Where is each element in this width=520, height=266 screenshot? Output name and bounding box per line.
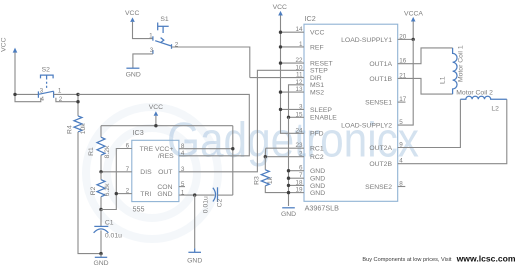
svg-text:22: 22: [295, 57, 303, 64]
svg-text:7: 7: [299, 172, 303, 179]
ground (under IC2 bus): [281, 208, 296, 218]
svg-text:S2: S2: [42, 67, 51, 74]
svg-text:R1: R1: [88, 147, 95, 156]
svg-text:/RES: /RES: [158, 153, 174, 160]
svg-text:SENSE1: SENSE1: [365, 100, 392, 107]
wire IC2 pin17 SENSE1 stub: [398, 101, 406, 103]
wire IC2 pin1: [281, 46, 305, 48]
wire VCCA to pin5 LOAD-SUPPLY2: [398, 39, 414, 125]
wire S2 node to 555 /RES (long): [78, 94, 249, 155]
wire IC2 pin19 GND: [289, 192, 305, 194]
svg-text:10: 10: [295, 64, 303, 71]
wire IC2 pin4 OUT2B to coil2: [398, 99, 507, 163]
svg-text:19: 19: [295, 187, 303, 194]
IC IC2 A3967SLB pin names and numbers: [295, 14, 406, 213]
svg-text:PFD: PFD: [310, 131, 324, 138]
resistor R1: [88, 126, 111, 172]
svg-text:13: 13: [295, 86, 303, 93]
svg-text:VCC: VCC: [125, 10, 139, 17]
node junction TRI: [115, 192, 118, 195]
wire IC2 pin8 SENSE2 stub: [398, 186, 406, 188]
node junction pin7/GND bus: [287, 177, 290, 180]
wire DIS to R1/R2 junction: [101, 171, 132, 173]
wire TRI pin to tie: [116, 193, 132, 195]
svg-text:RC2: RC2: [310, 154, 324, 161]
svg-text:1: 1: [299, 41, 303, 48]
svg-text:A3967SLB: A3967SLB: [305, 204, 340, 213]
svg-text:15: 15: [295, 111, 303, 118]
svg-text:1k: 1k: [267, 176, 274, 184]
svg-text:TRE: TRE: [140, 146, 154, 153]
wire IC2 pin16 OUT1A to coil: [398, 48, 453, 64]
switch S2: [38, 67, 62, 103]
IC IC3 555 box outline: [132, 140, 179, 201]
wire RC1/RC2 tie: [264, 148, 266, 157]
svg-text:0.01u: 0.01u: [203, 196, 210, 213]
ground (under 555): [187, 195, 202, 265]
node junction VCC/S2: [13, 93, 16, 96]
wire 555 pin3 OUT to IC2 STEP: [179, 70, 304, 172]
svg-text:3: 3: [40, 88, 44, 95]
wire IC2 pin22: [281, 62, 305, 64]
svg-text:GND: GND: [187, 258, 202, 265]
svg-text:GND: GND: [310, 183, 325, 190]
wire 555 pin5 CON stub: [179, 186, 185, 188]
wire VCC rail: [101, 125, 233, 127]
svg-text:1: 1: [58, 88, 62, 95]
wire IC2 pin14: [281, 31, 305, 33]
svg-text:0.01u: 0.01u: [105, 232, 122, 239]
node junction pin15/GND branch: [287, 116, 290, 119]
svg-text:23: 23: [295, 142, 303, 149]
svg-text:VCC+: VCC+: [155, 146, 173, 153]
svg-text:6.2k: 6.2k: [104, 183, 111, 196]
svg-text:GND: GND: [310, 168, 325, 175]
svg-text:18: 18: [295, 179, 303, 186]
svg-text:MS2: MS2: [310, 90, 324, 97]
node junction VCC rail: [154, 124, 157, 127]
svg-text:CON: CON: [157, 184, 172, 191]
svg-text:SLEEP: SLEEP: [310, 107, 332, 114]
svg-text:IC2: IC2: [305, 14, 316, 23]
svg-text:DIR: DIR: [310, 75, 322, 82]
node junction RC2/R3: [264, 155, 267, 158]
wire S2 pin4 to VCC line: [15, 94, 41, 101]
node junction GND/C2: [193, 193, 196, 196]
svg-text:3: 3: [299, 103, 303, 110]
node VCC (S1 power flag): [125, 10, 153, 38]
node junction pin1/VCC bus: [279, 45, 282, 48]
wire S2 pins tie vertical: [77, 94, 79, 116]
svg-text:4: 4: [181, 150, 185, 157]
resistor R2: [90, 172, 111, 210]
svg-text:2: 2: [299, 151, 303, 158]
svg-text:OUT1A: OUT1A: [369, 61, 392, 68]
node VCC (power flag above IC2): [273, 4, 287, 16]
wire S1 pin3 to GND: [133, 54, 153, 68]
svg-text:MS1: MS1: [310, 82, 324, 89]
IC IC3 555 pin names and numbers: [126, 128, 185, 213]
svg-text:TRI: TRI: [140, 191, 151, 198]
wire S2 pin1 to node: [54, 93, 78, 95]
svg-text:VCC: VCC: [273, 4, 287, 11]
svg-text:GND: GND: [310, 190, 325, 197]
node junction pin19/GND bus: [287, 191, 290, 194]
wire IC2 pin11 DIR: [250, 77, 304, 79]
svg-text:R4: R4: [66, 125, 73, 134]
wire GND bus right of 555: [288, 117, 290, 206]
node junction pin8/VCC: [231, 147, 234, 150]
IC IC2 A3967SLB box outline: [304, 24, 398, 201]
svg-text:STEP: STEP: [310, 68, 328, 75]
svg-text:OUT2A: OUT2A: [369, 145, 392, 152]
svg-text:2: 2: [126, 188, 130, 195]
wire IC2 pin6 GND: [289, 170, 305, 172]
svg-text:VCC: VCC: [1, 37, 8, 51]
IC U2 A3967SLB box fill: [304, 24, 398, 201]
svg-text:GND: GND: [93, 260, 108, 266]
wire IC2 pin3 SLEEP: [281, 108, 305, 110]
wire IC2 pin7 GND: [289, 177, 305, 179]
wire IC2 pin12 MS1 jog: [289, 85, 305, 118]
svg-text:GND: GND: [281, 211, 296, 218]
svg-text:REF: REF: [310, 44, 324, 51]
node junction pin22/VCC bus: [279, 61, 282, 64]
svg-text:Buy Components at low prices,: Buy Components at low prices, Visit: [362, 257, 452, 263]
svg-text:R3: R3: [254, 176, 261, 185]
svg-text:RC1: RC1: [310, 146, 324, 153]
svg-text:11: 11: [296, 72, 303, 79]
svg-text:10k: 10k: [80, 123, 87, 135]
svg-text:4: 4: [40, 96, 44, 103]
node VCCA power flag: [404, 10, 423, 39]
wire IC2 pin13 MS2: [281, 91, 305, 93]
wire VCC corner to S2 pin3: [15, 93, 38, 95]
wire VCC down to C2: [232, 126, 234, 195]
node junction pin13/VCC bus: [279, 90, 282, 93]
switch S1: [149, 16, 179, 54]
ground (under S1): [126, 68, 141, 78]
wire S1 pin2 to IC2 DIR: [172, 47, 250, 78]
inductor L1 Motor Coil 1: [440, 45, 465, 94]
svg-text:C1: C1: [105, 219, 114, 226]
svg-text:RESET: RESET: [310, 61, 333, 68]
svg-text:C2: C2: [217, 198, 224, 207]
svg-text:OUT1B: OUT1B: [369, 76, 392, 83]
svg-text:ENABLE: ENABLE: [310, 115, 337, 122]
svg-text:IC3: IC3: [133, 128, 144, 137]
wire IC2 pin20 LOAD-SUPPLY1: [398, 38, 414, 40]
svg-text:L2: L2: [491, 106, 499, 113]
wire R4 bottom to GND rail: [78, 132, 101, 254]
svg-text:OUT: OUT: [158, 169, 172, 176]
inductor L2 Motor Coil 2: [456, 89, 507, 112]
wire IC2 pin9 OUT2A to coil2: [398, 99, 461, 147]
node VCC (center power flag above IC3): [149, 104, 163, 126]
svg-text:DIS: DIS: [140, 169, 152, 176]
svg-text:www.lcsc.com: www.lcsc.com: [456, 253, 516, 263]
svg-text:GND: GND: [126, 71, 141, 78]
wire IC2 pin23 RC1: [266, 147, 304, 149]
node junction pin6/GND bus: [287, 169, 290, 172]
node junction R1/R2/DIS: [99, 170, 102, 173]
svg-text:7: 7: [126, 166, 130, 173]
ground (bottom left): [93, 254, 108, 266]
svg-text:1: 1: [149, 32, 153, 39]
svg-text:Motor Coil 1: Motor Coil 1: [458, 45, 465, 82]
resistor R4: [66, 116, 87, 134]
svg-text:SENSE2: SENSE2: [365, 184, 392, 191]
node junction pin18/GND bus: [287, 184, 290, 187]
svg-text:6: 6: [126, 143, 130, 150]
node VCC (left power flag): [1, 37, 18, 94]
svg-text:GND: GND: [157, 191, 172, 198]
node junction pin14/VCC bus: [279, 31, 282, 34]
resistor R3: [254, 157, 289, 193]
svg-text:555: 555: [133, 205, 145, 214]
svg-text:12: 12: [295, 79, 303, 86]
node junction S2 pin1: [76, 93, 79, 96]
watermark logo circle: [86, 107, 218, 239]
wire IC2 pin18 GND: [289, 184, 305, 186]
svg-text:GND: GND: [310, 176, 325, 183]
node junction C1/GND: [99, 252, 102, 255]
svg-text:24: 24: [295, 127, 303, 134]
wire 555 pin8 VCC+: [179, 148, 233, 150]
wire S2 pin2 to node: [56, 98, 78, 102]
svg-text:Motor Coil 2: Motor Coil 2: [456, 89, 493, 96]
node junction R2/C1/TRI: [99, 208, 102, 211]
wire VCC bus left of IC2: [281, 15, 305, 133]
svg-text:L1: L1: [440, 76, 447, 84]
svg-text:LOAD-SUPPLY2: LOAD-SUPPLY2: [341, 123, 392, 130]
svg-text:S1: S1: [160, 16, 169, 23]
svg-text:VCC: VCC: [310, 30, 324, 37]
wire IC2 pin15 ENABLE: [289, 116, 305, 118]
node junction VCCA/pin20: [412, 38, 415, 41]
svg-text:14: 14: [295, 26, 303, 33]
IC U1 555 box fill: [132, 140, 179, 201]
wire TRE/TRI tie: [101, 149, 132, 210]
svg-text:VCC: VCC: [149, 104, 163, 111]
svg-text:LOAD-SUPPLY1: LOAD-SUPPLY1: [341, 37, 392, 44]
wire IC2 pin21 OUT1B to coil: [398, 78, 453, 94]
svg-text:8.2k: 8.2k: [104, 145, 111, 158]
svg-text:R2: R2: [90, 186, 97, 195]
capacitor C2: [203, 187, 233, 213]
svg-text:VCCA: VCCA: [404, 10, 423, 17]
svg-text:6: 6: [299, 165, 303, 172]
wire IC2 pin2 RC2: [265, 156, 304, 158]
svg-text:OUT2B: OUT2B: [369, 161, 392, 168]
svg-text:3: 3: [150, 47, 154, 54]
capacitor C1: [94, 210, 123, 254]
node junction pin3/VCC bus: [279, 108, 282, 111]
node junction S2 pin2: [76, 100, 79, 103]
wire 555 pin1 GND to C2: [179, 194, 215, 196]
